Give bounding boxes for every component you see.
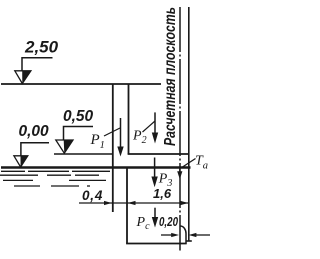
level line 0.50 xyxy=(54,153,113,155)
level mark 0,00 flag xyxy=(21,143,49,156)
svg-text:0,50: 0,50 xyxy=(63,108,94,125)
leader Ta xyxy=(181,159,196,169)
dimension 0,20 arrows xyxy=(161,234,210,236)
arrow Ta down xyxy=(177,169,182,180)
level mark 0,50 flag xyxy=(64,127,94,140)
svg-text:Расчетная плоскость: Расчетная плоскость xyxy=(162,7,179,146)
elbow line xyxy=(128,153,189,155)
dimension line 0,4 / 1,6 xyxy=(79,202,188,204)
datum dash-dot line xyxy=(179,7,181,251)
arrow P1 xyxy=(117,118,123,157)
tube right wall xyxy=(188,7,190,241)
water hatching row 2 xyxy=(0,174,99,176)
svg-text:0,4: 0,4 xyxy=(82,188,103,203)
level mark 0,00 triangle xyxy=(14,156,28,167)
arrow P3 xyxy=(151,158,157,188)
arrow P2 xyxy=(152,112,158,143)
tube mouth arc xyxy=(181,226,187,244)
water surface line 0.00 xyxy=(1,166,191,169)
pipe left wall xyxy=(112,84,114,212)
level mark 2,50 triangle xyxy=(15,71,31,84)
svg-text:0,20: 0,20 xyxy=(159,214,179,229)
water hatching row 4 xyxy=(14,185,90,187)
arrow 0,20 left tip xyxy=(171,233,179,237)
svg-text:1,6: 1,6 xyxy=(153,186,172,201)
tube bottom stub xyxy=(186,240,192,242)
leader P1 xyxy=(104,128,120,136)
svg-text:2,50: 2,50 xyxy=(24,38,59,57)
arrow 0,20 right tip xyxy=(189,233,197,237)
arrow 1,6 right tip xyxy=(181,201,189,205)
arrow Pc xyxy=(152,208,158,228)
box bottom xyxy=(126,243,187,245)
water hatching row 3 xyxy=(3,179,106,181)
arrow 1,6 left tip xyxy=(128,201,136,205)
leader P2 xyxy=(143,121,156,132)
level mark 2,50 flag xyxy=(22,58,53,71)
water hatching row 1 xyxy=(1,170,110,172)
arrow 0,4 right tip xyxy=(104,201,112,205)
box left wall xyxy=(126,168,128,244)
pipe right wall xyxy=(128,84,130,154)
level mark 0,50 triangle xyxy=(56,140,73,153)
level line 2.50 xyxy=(1,83,161,85)
svg-text:0,00: 0,00 xyxy=(19,123,50,140)
